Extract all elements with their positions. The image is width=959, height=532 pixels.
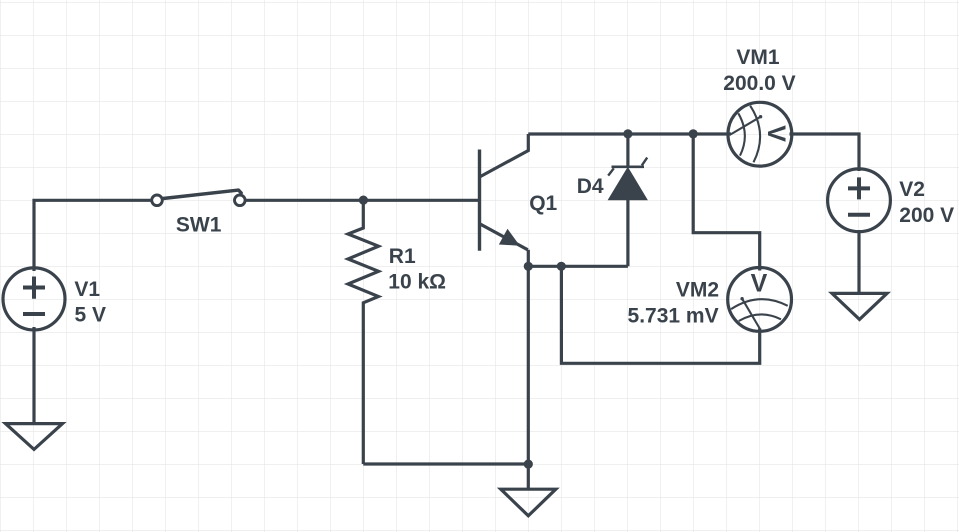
- wire V1 bottom to ground: [32, 327, 35, 424]
- ground (below V1): [6, 424, 63, 450]
- wire bottom run R1 to emitter node: [363, 462, 528, 465]
- svg-text:200 V: 200 V: [899, 204, 954, 227]
- node junction VM branch top: [689, 129, 698, 138]
- ground (bottom center): [501, 489, 556, 516]
- wire V1 top to switch: [34, 200, 152, 271]
- voltage source V1: [3, 268, 65, 330]
- svg-text:D4: D4: [577, 175, 604, 198]
- node junction VM2 branch bottom: [557, 262, 566, 271]
- voltage source V2: [828, 169, 891, 232]
- wire VM2 bottom loop back: [561, 266, 759, 363]
- svg-text:5 V: 5 V: [75, 303, 107, 326]
- wire top node to VM2 top terminal: [693, 134, 760, 271]
- wire VM1 to V2: [790, 134, 860, 171]
- node junction at bottom ground: [524, 460, 533, 469]
- svg-text:5.731 mV: 5.731 mV: [628, 305, 719, 328]
- svg-text:SW1: SW1: [176, 213, 222, 236]
- wire collector top run: [528, 132, 731, 135]
- svg-text:200.0 V: 200.0 V: [723, 72, 795, 95]
- svg-text:VM1: VM1: [736, 46, 780, 69]
- resistor R1: [348, 200, 379, 464]
- wire emitter down through nodes to ground: [527, 250, 530, 489]
- svg-text:R1: R1: [389, 245, 416, 268]
- svg-text:V: V: [762, 125, 790, 142]
- wire switch to base: [246, 199, 480, 202]
- svg-text:VM2: VM2: [676, 278, 719, 301]
- svg-text:V1: V1: [74, 278, 100, 301]
- voltmeter VM1: [728, 102, 792, 166]
- node junction D4 top: [623, 129, 632, 138]
- svg-text:10 kΩ: 10 kΩ: [388, 270, 446, 293]
- transistor Q1: [480, 134, 529, 251]
- voltmeter VM2: [728, 268, 792, 332]
- zener diode D4: [608, 134, 647, 266]
- node junction at R1 top: [359, 196, 368, 205]
- ground (below V2): [832, 293, 887, 319]
- node junction emitter: [524, 262, 533, 271]
- svg-text:V: V: [751, 269, 768, 297]
- switch SW1: [152, 190, 245, 206]
- svg-text:Q1: Q1: [529, 192, 557, 215]
- svg-text:V2: V2: [899, 178, 925, 201]
- wire emitter node to D4 anode: [528, 265, 628, 268]
- wire V2 bottom to ground: [857, 230, 860, 293]
